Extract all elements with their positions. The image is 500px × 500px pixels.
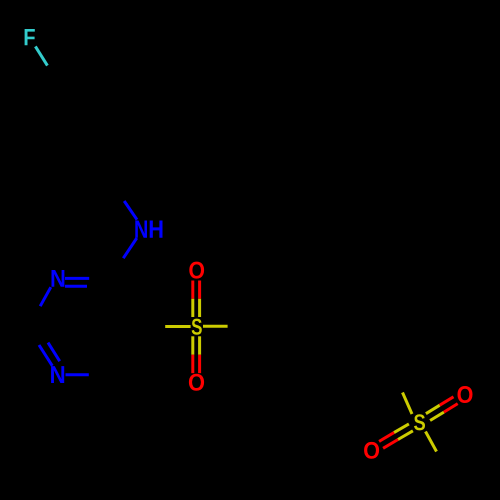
double bond N3=C4 outer line, nitrogen half xyxy=(65,277,89,280)
double bond S1=O1 right line, oxygen half xyxy=(198,281,201,299)
double bond S1=O2 left line, sulfur half xyxy=(191,336,194,354)
double bond S1=O2 right line, sulfur half xyxy=(198,336,201,354)
double bond S2=O4 lower line, sulfur half xyxy=(398,431,413,440)
bond N3-C2, nitrogen half xyxy=(40,287,51,306)
atom label O4 (sulfonyl oxygen lower left) xyxy=(364,442,379,459)
double bond C2=N1 inner line, nitrogen half xyxy=(48,343,60,362)
atom label N3 (pyrimidine upper N) xyxy=(51,270,64,287)
double bond S2=O3 upper line, sulfur half xyxy=(426,405,440,414)
double bond N3=C4 inner line, nitrogen half xyxy=(65,285,87,288)
bond CH2-N(H), nitrogen-colored half xyxy=(124,201,137,220)
atom label N of amine NH xyxy=(135,220,147,237)
double bond S2=O4 lower line, oxygen half xyxy=(383,440,398,449)
bond N1-C6, nitrogen half xyxy=(66,373,89,376)
atom label S1 (sulfonyl sulfur) xyxy=(192,319,202,335)
double bond S2=O4 upper line, sulfur half xyxy=(394,424,409,433)
atom label F (fluorine) xyxy=(25,29,35,45)
atom label O2 (sulfonyl oxygen down) xyxy=(189,374,204,391)
bond S1-CH3, sulfur half xyxy=(203,325,228,328)
double bond S1=O2 right line, oxygen half xyxy=(198,355,201,374)
bond N(H)-C4 pyrimidine, nitrogen-colored half xyxy=(123,238,137,258)
atom label O3 (sulfonyl oxygen upper right) xyxy=(457,386,472,403)
double bond S1=O2 left line, oxygen half xyxy=(191,355,194,374)
double bond S1=O1 left line, oxygen half xyxy=(191,281,194,299)
bond C(aryl)-S2, sulfur half xyxy=(403,393,413,415)
atom label H of amine NH xyxy=(150,220,163,237)
bond C5-S1, sulfur half xyxy=(165,325,190,328)
double bond C2=N1 outer line, nitrogen half xyxy=(39,345,52,366)
double bond S1=O1 right line, sulfur half xyxy=(198,299,201,317)
bond S2-CH3, sulfur half xyxy=(426,432,437,452)
double bond S2=O3 lower line, oxygen half xyxy=(444,404,458,413)
double bond S1=O1 left line, sulfur half xyxy=(191,299,194,317)
atom label S2 (second sulfonyl sulfur) xyxy=(414,414,425,430)
double bond S2=O4 upper line, oxygen half xyxy=(379,433,394,442)
atom label O1 (sulfonyl oxygen up) xyxy=(189,262,204,279)
double bond S2=O3 upper line, oxygen half xyxy=(440,397,454,405)
double bond S2=O3 lower line, sulfur half xyxy=(430,412,444,420)
atom label N1 (pyrimidine lower N) xyxy=(51,366,64,383)
bond F-C(aryl), fluorine-colored half xyxy=(35,46,47,65)
